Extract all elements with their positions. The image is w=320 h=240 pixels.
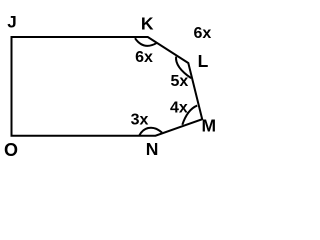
svg-text:3x: 3x (131, 111, 149, 128)
angle arc at N (139, 128, 162, 136)
hexagon JKLMNO outline (12, 37, 203, 136)
svg-text:K: K (141, 14, 154, 34)
svg-text:4x: 4x (170, 100, 188, 117)
svg-text:6x: 6x (194, 25, 212, 42)
svg-text:M: M (202, 115, 217, 135)
svg-text:J: J (7, 12, 16, 31)
angle arc at L (176, 57, 191, 79)
svg-text:5x: 5x (171, 73, 189, 90)
svg-text:O: O (4, 140, 18, 160)
angle arc at K (135, 38, 157, 46)
svg-text:6x: 6x (135, 49, 153, 66)
angle arc at M (182, 106, 197, 125)
svg-text:N: N (146, 139, 159, 159)
svg-text:L: L (198, 51, 209, 71)
